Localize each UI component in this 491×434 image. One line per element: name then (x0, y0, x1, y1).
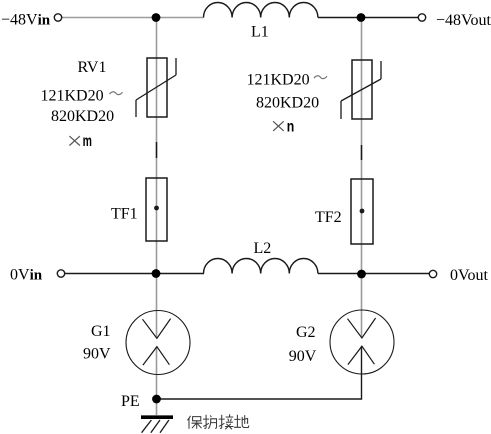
wire left column black lead segment (156, 142, 158, 158)
svg-text:G2: G2 (296, 324, 316, 341)
wire top rail right (L1 to -48Vout terminal) (318, 17, 419, 19)
junction node J3 (0V left) (152, 269, 161, 278)
wire left column lower (G1 bottom to ground) (156, 347, 158, 416)
wire left column vertical (156, 18, 158, 339)
svg-text:90V: 90V (83, 346, 111, 363)
multiplier xn (right) (273, 118, 294, 135)
gas discharge tube G2 (330, 310, 394, 374)
wire 0V rail left (0Vin terminal to L2) (65, 273, 204, 275)
value 121KD20~ (left) (41, 88, 123, 105)
terminal -48Vout (418, 14, 425, 21)
junction node PE (152, 395, 161, 404)
junction node J1 (top left) (152, 13, 161, 22)
wire right column black lead segment (361, 145, 363, 160)
wire right column vertical (361, 18, 363, 338)
thermal fuse TF2 (351, 179, 373, 244)
svg-text:L1: L1 (251, 24, 269, 41)
svg-text:90V: 90V (289, 348, 317, 365)
inductor L1 (204, 2, 318, 17)
svg-text:121KD20: 121KD20 (41, 88, 104, 105)
svg-text:PE: PE (121, 393, 140, 410)
varistor RV2 (341, 60, 381, 119)
varistor RV1 (136, 58, 176, 117)
svg-text:TF1: TF1 (111, 205, 138, 222)
label protective earth (CJK) 保护接地 (188, 414, 249, 429)
svg-text:G1: G1 (91, 323, 111, 340)
thermal fuse TF1 (146, 178, 167, 241)
svg-text:n: n (287, 118, 295, 135)
wire G2 bottom elbow to PE node (157, 346, 362, 399)
svg-text:820KD20: 820KD20 (256, 94, 319, 111)
svg-text:−48Vout: −48Vout (436, 12, 491, 29)
svg-text:820KD20: 820KD20 (51, 108, 114, 125)
svg-text:RV1: RV1 (78, 59, 107, 76)
wire 0V rail right (L2 to 0Vout terminal) (318, 273, 430, 275)
svg-text:−48Vin: −48Vin (1, 12, 51, 29)
terminal 0Vin (57, 270, 64, 277)
svg-text:m: m (83, 133, 92, 150)
svg-text:0Vout: 0Vout (450, 267, 488, 284)
svg-text:121KD20: 121KD20 (247, 71, 310, 88)
multiplier xm (left) (69, 133, 92, 150)
junction node J4 (0V right) (357, 270, 366, 279)
svg-text:L2: L2 (254, 240, 272, 257)
inductor L2 (204, 258, 318, 273)
value 121KD20~ (right) (247, 71, 328, 88)
svg-text:0Vin: 0Vin (10, 267, 43, 284)
gas discharge tube G1 (126, 311, 190, 375)
terminal 0Vout (429, 270, 436, 277)
ground symbol (141, 417, 173, 433)
junction node J2 (top right) (357, 13, 366, 22)
terminal -48Vin (54, 14, 61, 21)
wire top rail left (-48Vin terminal to L1) (62, 17, 204, 19)
svg-text:TF2: TF2 (315, 209, 342, 226)
